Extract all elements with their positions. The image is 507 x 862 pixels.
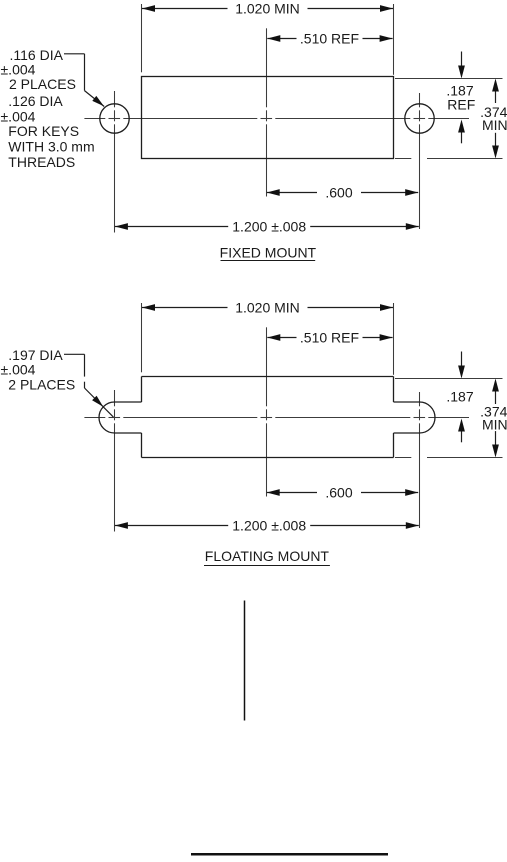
svg-text:.510 REF: .510 REF [300, 31, 359, 47]
svg-text:MIN: MIN [482, 416, 507, 432]
svg-text:.600: .600 [325, 485, 352, 501]
svg-text:.197 DIA: .197 DIA [8, 347, 63, 363]
svg-text:±.004: ±.004 [1, 362, 36, 378]
svg-text:THREADS: THREADS [8, 154, 75, 170]
svg-text:WITH 3.0 mm: WITH 3.0 mm [8, 139, 94, 155]
svg-text:.600: .600 [325, 185, 352, 201]
svg-text:±.004: ±.004 [1, 61, 36, 77]
svg-text:FLOATING MOUNT: FLOATING MOUNT [205, 548, 330, 564]
svg-text:1.020 MIN: 1.020 MIN [235, 1, 300, 17]
svg-text:±.004: ±.004 [1, 108, 36, 124]
svg-text:FIXED MOUNT: FIXED MOUNT [220, 245, 317, 261]
svg-text:FOR KEYS: FOR KEYS [8, 123, 79, 139]
svg-text:.510 REF: .510 REF [300, 330, 359, 346]
svg-text:2 PLACES: 2 PLACES [9, 76, 76, 92]
svg-text:MIN: MIN [482, 117, 507, 133]
svg-text:1.200 ±.008: 1.200 ±.008 [232, 518, 306, 534]
svg-text:.187: .187 [446, 389, 473, 405]
svg-text:1.200 ±.008: 1.200 ±.008 [232, 219, 306, 235]
svg-text:2 PLACES: 2 PLACES [8, 377, 75, 393]
svg-text:.126 DIA: .126 DIA [8, 93, 63, 109]
svg-text:REF: REF [447, 96, 475, 112]
svg-text:.116 DIA: .116 DIA [10, 47, 64, 63]
svg-text:1.020 MIN: 1.020 MIN [235, 300, 300, 316]
